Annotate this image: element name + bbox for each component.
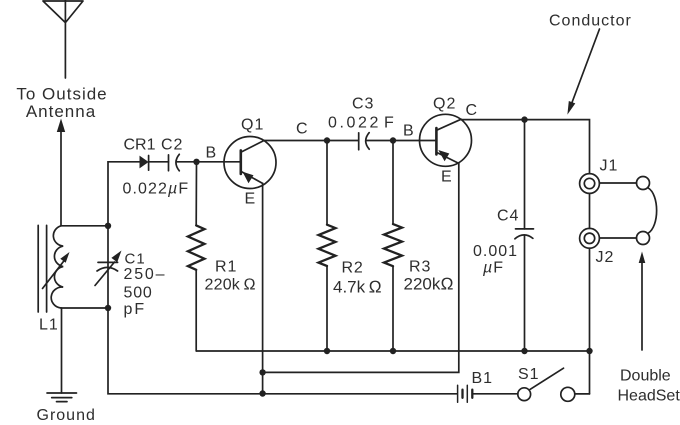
- svg-text:µF: µF: [482, 260, 504, 277]
- svg-text:B: B: [403, 123, 415, 140]
- svg-text:Q1: Q1: [241, 117, 264, 134]
- svg-text:Ground: Ground: [37, 407, 96, 424]
- svg-text:Double: Double: [620, 368, 671, 385]
- svg-text:Conductor: Conductor: [549, 13, 632, 30]
- svg-text:R2: R2: [342, 260, 364, 277]
- svg-text:C: C: [466, 102, 479, 119]
- svg-text:J2: J2: [596, 249, 615, 266]
- svg-text:220k Ω: 220k Ω: [205, 277, 256, 294]
- svg-text:S1: S1: [518, 366, 540, 383]
- svg-text:C2: C2: [161, 137, 183, 154]
- svg-text:4.7k Ω: 4.7k Ω: [333, 278, 382, 297]
- svg-text:pF: pF: [124, 301, 147, 318]
- svg-text:B: B: [206, 145, 218, 162]
- svg-text:To Outside: To Outside: [16, 85, 107, 104]
- svg-text:C1: C1: [125, 251, 146, 268]
- svg-text:C: C: [296, 121, 309, 138]
- svg-text:0.022: 0.022: [328, 115, 381, 132]
- svg-text:HeadSet: HeadSet: [618, 388, 680, 405]
- svg-text:C3: C3: [352, 96, 374, 113]
- svg-text:J1: J1: [600, 158, 619, 175]
- svg-text:F: F: [384, 115, 395, 132]
- svg-text:Antenna: Antenna: [26, 102, 96, 121]
- svg-text:0.022µF: 0.022µF: [123, 181, 190, 198]
- svg-text:C4: C4: [497, 207, 519, 224]
- svg-text:500: 500: [124, 285, 153, 302]
- svg-text:E: E: [245, 191, 257, 208]
- svg-text:0.001: 0.001: [473, 243, 518, 260]
- svg-text:220kΩ: 220kΩ: [404, 275, 454, 294]
- svg-text:R1: R1: [215, 259, 237, 276]
- svg-text:250–: 250–: [124, 266, 167, 283]
- svg-text:R3: R3: [409, 259, 431, 276]
- svg-text:E: E: [441, 169, 453, 186]
- svg-text:Q2: Q2: [433, 96, 456, 113]
- svg-text:CR1: CR1: [124, 137, 156, 154]
- svg-text:L1: L1: [39, 317, 59, 334]
- svg-text:B1: B1: [472, 370, 494, 387]
